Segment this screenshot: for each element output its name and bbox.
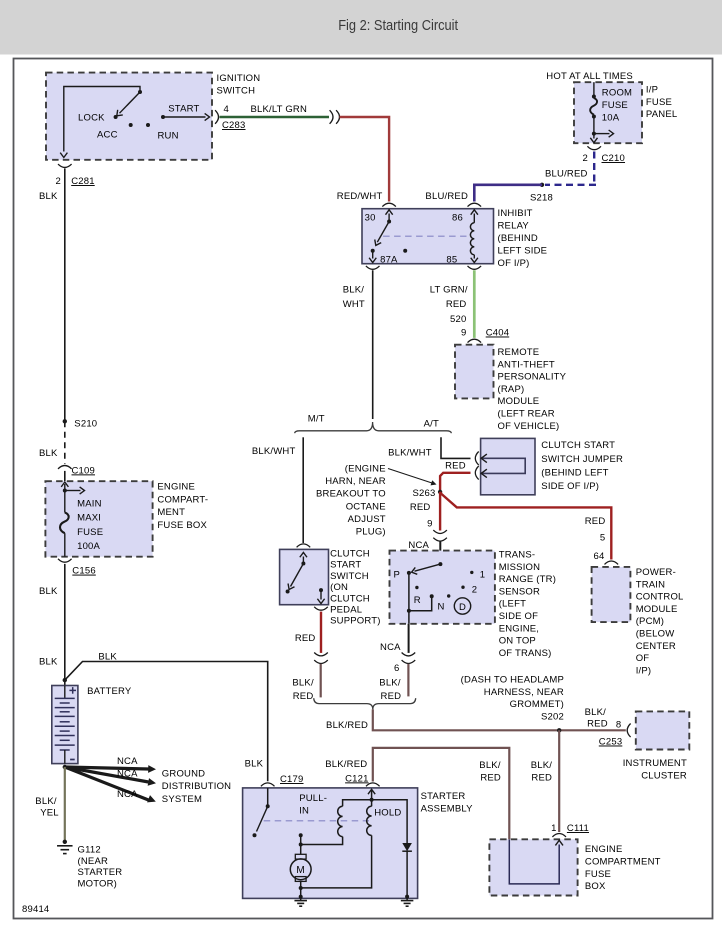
svg-text:85: 85 [446, 255, 457, 266]
svg-text:S263: S263 [413, 488, 436, 499]
svg-text:OF: OF [636, 653, 650, 664]
svg-text:POWER-: POWER- [636, 567, 676, 578]
ground at motor [300, 897, 302, 901]
connector relay pin 85 below [468, 266, 482, 269]
svg-text:(BEHIND LEFT: (BEHIND LEFT [541, 467, 608, 478]
jumper internal loop [481, 454, 525, 478]
wire BLK/YEL to G112 [64, 767, 66, 840]
wire RED/WHT [340, 117, 390, 202]
instrument cluster labels [623, 758, 687, 781]
splice S218 [540, 183, 544, 187]
svg-text:BLK/: BLK/ [292, 678, 314, 689]
svg-text:COMPARTMENT: COMPARTMENT [585, 857, 661, 868]
svg-text:(BEHIND: (BEHIND [498, 233, 538, 244]
merge brace [314, 698, 416, 709]
svg-text:LT GRN/: LT GRN/ [430, 285, 468, 296]
svg-text:OF TRANS): OF TRANS) [499, 648, 552, 659]
battery plates [55, 686, 76, 764]
starter solenoid switch [253, 788, 270, 837]
clutch start switch jumper box [481, 438, 535, 494]
svg-text:OCTANE: OCTANE [346, 501, 386, 512]
svg-text:HOLD: HOLD [374, 808, 401, 819]
svg-text:520: 520 [450, 314, 466, 325]
connector C253 [627, 724, 630, 738]
connector PCM pin 64 [605, 561, 619, 564]
ignition switch box [46, 73, 212, 160]
svg-text:(LEFT: (LEFT [499, 599, 526, 610]
pull-in coil [301, 800, 372, 845]
fuse labels [77, 499, 103, 552]
svg-text:ASSEMBLY: ASSEMBLY [421, 804, 474, 815]
svg-text:ROOM: ROOM [602, 88, 632, 99]
svg-text:(NEAR: (NEAR [78, 856, 109, 867]
svg-text:MOTOR): MOTOR) [78, 879, 118, 890]
svg-text:PULL-: PULL- [299, 793, 327, 804]
svg-text:9: 9 [461, 328, 466, 339]
wire BLU/RED (purple) to relay pin 86 [474, 185, 542, 202]
svg-text:COMPART-: COMPART- [157, 494, 208, 505]
svg-text:5: 5 [600, 533, 605, 544]
svg-text:BLK/WHT: BLK/WHT [252, 446, 296, 457]
svg-text:SWITCH JUMPER: SWITCH JUMPER [541, 454, 623, 465]
hold coil + C121 feed [301, 789, 376, 888]
wire RED S263 down to TR sensor [439, 492, 441, 531]
svg-text:INHIBIT: INHIBIT [498, 208, 533, 219]
svg-text:BLK: BLK [39, 191, 58, 202]
svg-text:BREAKOUT TO: BREAKOUT TO [316, 489, 386, 500]
svg-text:BLU/RED: BLU/RED [545, 169, 588, 180]
fuse box 2 internal loop [509, 840, 563, 884]
starter motor M [290, 833, 311, 899]
svg-text:RANGE (TR): RANGE (TR) [499, 574, 556, 585]
connector C283 [215, 110, 218, 124]
wire RED clutch switch down [320, 612, 322, 653]
svg-text:CLUTCH: CLUTCH [330, 549, 370, 560]
wire NCA from TR sensor [408, 624, 410, 653]
svg-text:SWITCH: SWITCH [217, 86, 256, 97]
svg-text:OF VEHICLE): OF VEHICLE) [498, 421, 560, 432]
connector clutch switch bottom [314, 607, 328, 610]
wire BLK/RED TR to brace [407, 664, 409, 697]
svg-text:2: 2 [56, 176, 61, 187]
svg-text:BLU/RED: BLU/RED [425, 191, 468, 202]
inline connector pair [433, 530, 447, 533]
svg-text:64: 64 [594, 551, 605, 562]
svg-text:BLK: BLK [98, 651, 117, 662]
battery box [52, 686, 78, 764]
svg-text:RED: RED [480, 772, 501, 783]
svg-text:6: 6 [394, 663, 399, 674]
starter internal dashed line [264, 820, 369, 822]
svg-text:CONTROL: CONTROL [636, 592, 684, 603]
svg-text:ENGINE,: ENGINE, [499, 623, 539, 634]
room fuse 10A symbol [590, 82, 613, 143]
RAP module labels [498, 347, 567, 432]
svg-text:87A: 87A [380, 255, 398, 266]
svg-text:HARNESS, NEAR: HARNESS, NEAR [484, 687, 564, 698]
svg-text:SENSOR: SENSOR [499, 586, 540, 597]
svg-text:86: 86 [452, 212, 463, 223]
svg-text:ADJUST: ADJUST [348, 514, 386, 525]
wire BLU/RED dashed [593, 152, 595, 185]
svg-text:IGNITION: IGNITION [217, 73, 261, 84]
svg-text:NCA: NCA [117, 789, 138, 800]
svg-text:TRANS-: TRANS- [499, 550, 536, 561]
svg-text:BLK/: BLK/ [35, 796, 57, 807]
svg-text:CLUTCH START: CLUTCH START [541, 440, 615, 451]
fuse box 2 labels [585, 844, 661, 892]
svg-text:BATTERY: BATTERY [87, 686, 132, 697]
svg-text:C156: C156 [72, 566, 96, 577]
svg-text:C111: C111 [567, 823, 589, 834]
svg-text:BLK/WHT: BLK/WHT [388, 448, 432, 459]
svg-text:C121: C121 [345, 773, 369, 784]
svg-text:I/P): I/P) [636, 665, 652, 676]
dash-to-headlamp annotation [461, 675, 564, 723]
svg-text:2: 2 [583, 153, 588, 164]
svg-text:BLK: BLK [245, 759, 264, 770]
TR sensor position labels [393, 570, 485, 613]
ground distribution labels [162, 769, 231, 805]
svg-text:RED: RED [381, 691, 402, 702]
relay pin 86 arrow [473, 214, 475, 223]
svg-text:BLK/RED: BLK/RED [325, 759, 367, 770]
svg-text:YEL: YEL [40, 808, 59, 819]
ground at diode [406, 897, 408, 901]
starter assembly box [243, 788, 418, 899]
connector C404 [468, 339, 482, 342]
wire BLK to battery [64, 564, 66, 686]
svg-text:BLK/: BLK/ [585, 707, 607, 718]
svg-text:G112: G112 [78, 845, 101, 856]
svg-text:BLK/LT GRN: BLK/LT GRN [251, 104, 308, 115]
svg-text:IN: IN [299, 805, 309, 816]
fuse box labels [157, 481, 208, 531]
connector C281 [58, 164, 72, 167]
relay switch arm 30-87A [377, 222, 389, 243]
connector relay pin 30 [382, 203, 396, 206]
junction dot below battery [63, 765, 67, 769]
svg-text:GROUND: GROUND [162, 769, 205, 780]
svg-text:30: 30 [365, 212, 376, 223]
svg-text:(BELOW: (BELOW [636, 629, 675, 640]
svg-text:(LEFT REAR: (LEFT REAR [498, 409, 555, 420]
svg-text:NCA: NCA [408, 540, 429, 551]
svg-text:HARN, NEAR: HARN, NEAR [325, 476, 386, 487]
svg-text:HOT AT ALL TIMES: HOT AT ALL TIMES [546, 71, 633, 82]
svg-text:STARTER: STARTER [421, 791, 466, 802]
M/T A/T split brace [295, 422, 452, 433]
wire BLK/WHT [372, 270, 374, 419]
wire BLK/RED loop through fuse box to C121 [373, 748, 510, 840]
svg-text:P: P [393, 570, 400, 581]
TR sensor internals [407, 562, 474, 624]
ignition switch internal contacts [60, 87, 209, 158]
svg-text:LEFT SIDE: LEFT SIDE [498, 246, 548, 257]
svg-text:OF I/P): OF I/P) [498, 258, 530, 269]
svg-text:FUSE: FUSE [602, 100, 628, 111]
svg-text:ENGINE: ENGINE [157, 481, 195, 492]
diode [372, 800, 412, 899]
svg-text:RED: RED [295, 633, 316, 644]
svg-text:SYSTEM: SYSTEM [162, 794, 202, 805]
svg-text:SIDE OF: SIDE OF [499, 611, 538, 622]
wire M/T BLK/WHT [302, 437, 304, 543]
svg-text:RED: RED [293, 691, 314, 702]
wire LT GRN/RED 520 [473, 270, 476, 338]
TR sensor labels [499, 550, 556, 659]
PCM labels [636, 567, 684, 676]
svg-text:RED: RED [587, 718, 608, 729]
svg-text:RED: RED [445, 461, 466, 472]
connector relay pin 86 [468, 203, 482, 206]
svg-text:S218: S218 [530, 193, 553, 204]
wire NCA black into TR sensor [439, 542, 441, 565]
svg-text:MISSION: MISSION [499, 562, 541, 573]
junction + branch wire BLK to starter [63, 678, 67, 682]
connector C156 [58, 559, 72, 562]
svg-text:C109: C109 [72, 465, 96, 476]
svg-text:RED: RED [531, 772, 552, 783]
svg-text:FUSE: FUSE [77, 527, 103, 538]
svg-text:BLK/: BLK/ [479, 760, 501, 771]
wire BLK/RED S202 down to C111 [558, 730, 560, 832]
connector C121 [366, 783, 380, 786]
svg-text:CENTER: CENTER [636, 641, 676, 652]
ignition switch position labels [78, 104, 200, 142]
svg-text:SWITCH: SWITCH [330, 571, 369, 582]
transmission range sensor box [390, 551, 495, 624]
PCM box [592, 567, 631, 622]
svg-text:ANTI-THEFT: ANTI-THEFT [498, 359, 555, 370]
svg-text:FUSE: FUSE [585, 869, 611, 880]
svg-text:C404: C404 [486, 328, 510, 339]
connector clutch switch top [297, 544, 311, 547]
svg-text:I/P: I/P [646, 85, 658, 96]
svg-text:RED: RED [410, 502, 431, 513]
svg-text:89414: 89414 [22, 904, 49, 915]
svg-text:9: 9 [427, 519, 432, 530]
svg-text:C253: C253 [599, 737, 623, 748]
svg-text:10A: 10A [602, 113, 620, 124]
svg-text:8: 8 [616, 720, 621, 731]
main maxi fuse 100A [60, 482, 85, 557]
svg-text:RUN: RUN [158, 131, 179, 142]
relay internal dashed line [383, 235, 466, 237]
inline connector on BLK/LT GRN wire [330, 110, 333, 124]
relay pin 87A arrow [372, 251, 374, 259]
svg-text:PEDAL: PEDAL [330, 605, 362, 616]
svg-text:C210: C210 [602, 153, 626, 164]
wire BLK/RED clutch to brace [320, 664, 322, 698]
svg-text:RED: RED [585, 516, 606, 527]
svg-text:ACC: ACC [97, 130, 118, 141]
wire BLK dashed to C109 [64, 421, 66, 464]
svg-text:BLK/: BLK/ [343, 285, 365, 296]
svg-text:FUSE: FUSE [646, 97, 672, 108]
svg-text:BLK/: BLK/ [379, 678, 401, 689]
svg-text:LOCK: LOCK [78, 113, 105, 124]
instrument cluster box [636, 711, 690, 749]
svg-text:4: 4 [224, 104, 229, 115]
svg-text:ENGINE: ENGINE [585, 844, 623, 855]
svg-text:BLK/: BLK/ [531, 760, 553, 771]
svg-text:NCA: NCA [117, 769, 138, 780]
connector jumper pin top [475, 452, 478, 466]
svg-text:2: 2 [472, 585, 477, 596]
RAP module box [455, 345, 494, 399]
wire RED jumper to S263 [440, 473, 470, 490]
splice S210 [63, 419, 67, 423]
svg-text:START: START [330, 560, 361, 571]
svg-text:TRAIN: TRAIN [636, 579, 666, 590]
svg-text:BLK/RED: BLK/RED [326, 720, 368, 731]
svg-text:START: START [168, 104, 199, 115]
svg-text:NCA: NCA [380, 642, 401, 653]
connector C179 [261, 783, 275, 786]
svg-text:C281: C281 [71, 176, 95, 187]
svg-text:MAXI: MAXI [77, 513, 101, 524]
svg-text:M/T: M/T [308, 414, 325, 425]
title bar [0, 0, 722, 55]
svg-text:MAIN: MAIN [77, 499, 102, 510]
svg-text:BOX: BOX [585, 881, 606, 892]
wire BLK/RED merged to S202 and C253 [373, 709, 626, 730]
svg-text:(ENGINE: (ENGINE [345, 463, 386, 474]
svg-text:PERSONALITY: PERSONALITY [498, 372, 567, 383]
relay labels [498, 208, 548, 269]
svg-text:(PCM): (PCM) [636, 616, 664, 627]
I/P fuse panel box (room fuse) [574, 82, 642, 143]
svg-text:MENT: MENT [157, 507, 185, 518]
svg-text:CLUSTER: CLUSTER [641, 770, 687, 781]
svg-text:WHT: WHT [343, 299, 365, 310]
svg-text:S202: S202 [541, 711, 564, 722]
engine compartment fuse box (upper) [45, 481, 152, 557]
svg-text:FUSE BOX: FUSE BOX [157, 520, 207, 531]
svg-text:A/T: A/T [424, 419, 439, 430]
connector C210 [587, 146, 601, 149]
inline connector pair [402, 653, 416, 656]
svg-text:DISTRIBUTION: DISTRIBUTION [162, 781, 231, 792]
svg-text:100A: 100A [77, 541, 100, 552]
inline connector pair [314, 653, 328, 656]
wire BLK ignition down [64, 169, 66, 422]
engine harness annotation [316, 463, 436, 537]
svg-text:INSTRUMENT: INSTRUMENT [623, 758, 687, 769]
svg-text:MODULE: MODULE [636, 604, 678, 615]
svg-text:N: N [438, 602, 445, 613]
relay coil [470, 223, 474, 255]
svg-text:(ON: (ON [330, 582, 348, 593]
svg-text:SIDE OF I/P): SIDE OF I/P) [541, 481, 599, 492]
svg-text:STARTER: STARTER [78, 867, 123, 878]
svg-text:PANEL: PANEL [646, 109, 677, 120]
svg-text:SUPPORT): SUPPORT) [330, 616, 381, 627]
svg-text:NCA: NCA [117, 756, 138, 767]
relay pin 85 arrow [473, 255, 475, 259]
connector C109 [58, 466, 72, 469]
inhibit relay box [362, 209, 494, 264]
splice S202 [557, 728, 561, 732]
ground G112 [63, 840, 67, 844]
svg-text:BLK: BLK [39, 586, 58, 597]
relay pin 30 arrow [388, 214, 390, 222]
svg-text:M: M [296, 865, 305, 876]
svg-text:CLUTCH: CLUTCH [330, 593, 370, 604]
engine compartment fuse box (lower) [489, 839, 577, 895]
svg-text:C283: C283 [222, 120, 246, 131]
NCA arrows to ground distribution [65, 756, 156, 803]
svg-text:BLK: BLK [39, 657, 58, 668]
wire BLK/LT GRN (green) [220, 116, 330, 118]
wire A/T BLK/WHT [441, 437, 471, 458]
svg-text:RED/WHT: RED/WHT [337, 191, 383, 202]
svg-text:(DASH TO HEADLAMP: (DASH TO HEADLAMP [461, 675, 564, 686]
wire RED S263 to PCM [440, 492, 611, 560]
clutch switch labels [330, 549, 381, 627]
svg-text:S210: S210 [74, 418, 97, 429]
connector jumper pin bottom [475, 466, 478, 480]
G112 labels [78, 845, 123, 890]
connector C111 [552, 834, 566, 837]
clutch switch internals [286, 552, 325, 603]
svg-text:ON TOP: ON TOP [499, 636, 536, 647]
svg-text:Fig 2: Starting Circuit: Fig 2: Starting Circuit [338, 16, 458, 33]
svg-text:BLK: BLK [39, 448, 58, 459]
svg-text:RED: RED [446, 299, 467, 310]
svg-text:PLUG): PLUG) [356, 527, 386, 538]
svg-text:MODULE: MODULE [498, 396, 540, 407]
svg-text:1: 1 [480, 570, 485, 581]
svg-text:R: R [414, 595, 421, 606]
svg-text:RELAY: RELAY [498, 220, 530, 231]
jumper labels [541, 440, 623, 492]
clutch start switch box [280, 549, 329, 604]
svg-text:C179: C179 [280, 774, 304, 785]
svg-text:GROMMET): GROMMET) [510, 699, 564, 710]
splice S263 [438, 490, 442, 494]
connector relay pin 87A below [366, 266, 380, 269]
svg-text:(RAP): (RAP) [498, 384, 525, 395]
svg-text:REMOTE: REMOTE [498, 347, 540, 358]
svg-text:1: 1 [551, 823, 556, 834]
svg-text:D: D [459, 602, 466, 613]
